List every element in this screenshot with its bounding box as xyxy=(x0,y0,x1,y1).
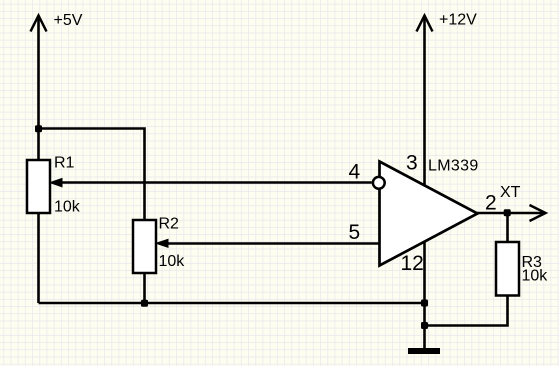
wire branch to R2 top xyxy=(39,129,145,221)
wire op-amp output to XT xyxy=(477,212,545,215)
wire R1 wiper to op-amp input 4 xyxy=(61,181,372,184)
svg-text:5: 5 xyxy=(349,221,361,244)
R1 wiper arrow xyxy=(50,178,62,186)
node junction at +5V branch xyxy=(35,125,42,132)
svg-text:10k: 10k xyxy=(54,199,81,216)
resistor R2 (potentiometer body) xyxy=(133,220,156,273)
ground symbol xyxy=(408,348,440,354)
svg-text:10k: 10k xyxy=(522,268,549,285)
power +5V arrow xyxy=(31,16,47,32)
svg-text:LM339: LM339 xyxy=(428,158,479,175)
XT arrowhead xyxy=(530,205,546,221)
svg-text:R1: R1 xyxy=(54,155,75,172)
wire R2 bottom to ground bus xyxy=(143,273,146,303)
wire +12V stem to op-amp pin 3 xyxy=(423,17,426,186)
svg-text:XT: XT xyxy=(500,184,521,201)
wire op-amp pin 12 down to ground xyxy=(423,243,426,349)
wire output node to R3 top xyxy=(506,213,509,242)
wire R2 wiper to op-amp input 5 xyxy=(167,242,379,245)
node junction R2 / bus xyxy=(141,300,148,307)
wire +5V stem to R1 top xyxy=(37,17,40,160)
power +12V arrow xyxy=(417,16,433,32)
svg-text:4: 4 xyxy=(349,161,361,184)
svg-text:12: 12 xyxy=(401,252,424,275)
node junction output / R3 xyxy=(504,209,511,216)
svg-text:+5V: +5V xyxy=(54,12,83,29)
svg-text:3: 3 xyxy=(406,152,418,175)
node junction bus / pin12 wire xyxy=(421,300,428,307)
svg-text:2: 2 xyxy=(485,192,497,215)
resistor R3 xyxy=(496,242,519,296)
op-amp U1 LM339 comparator triangle xyxy=(380,162,478,266)
wire ground bus bottom xyxy=(39,302,425,305)
resistor R1 (potentiometer body) xyxy=(27,160,50,213)
svg-text:R2: R2 xyxy=(159,216,180,233)
svg-text:+12V: +12V xyxy=(439,12,477,29)
svg-text:10k: 10k xyxy=(159,253,186,270)
inverting input bubble xyxy=(373,177,385,189)
wire ground branch to R3 bottom xyxy=(425,296,508,326)
wire R1 bottom to ground bus xyxy=(37,213,40,303)
R2 wiper arrow xyxy=(156,239,168,247)
node junction ground branch xyxy=(421,322,428,329)
